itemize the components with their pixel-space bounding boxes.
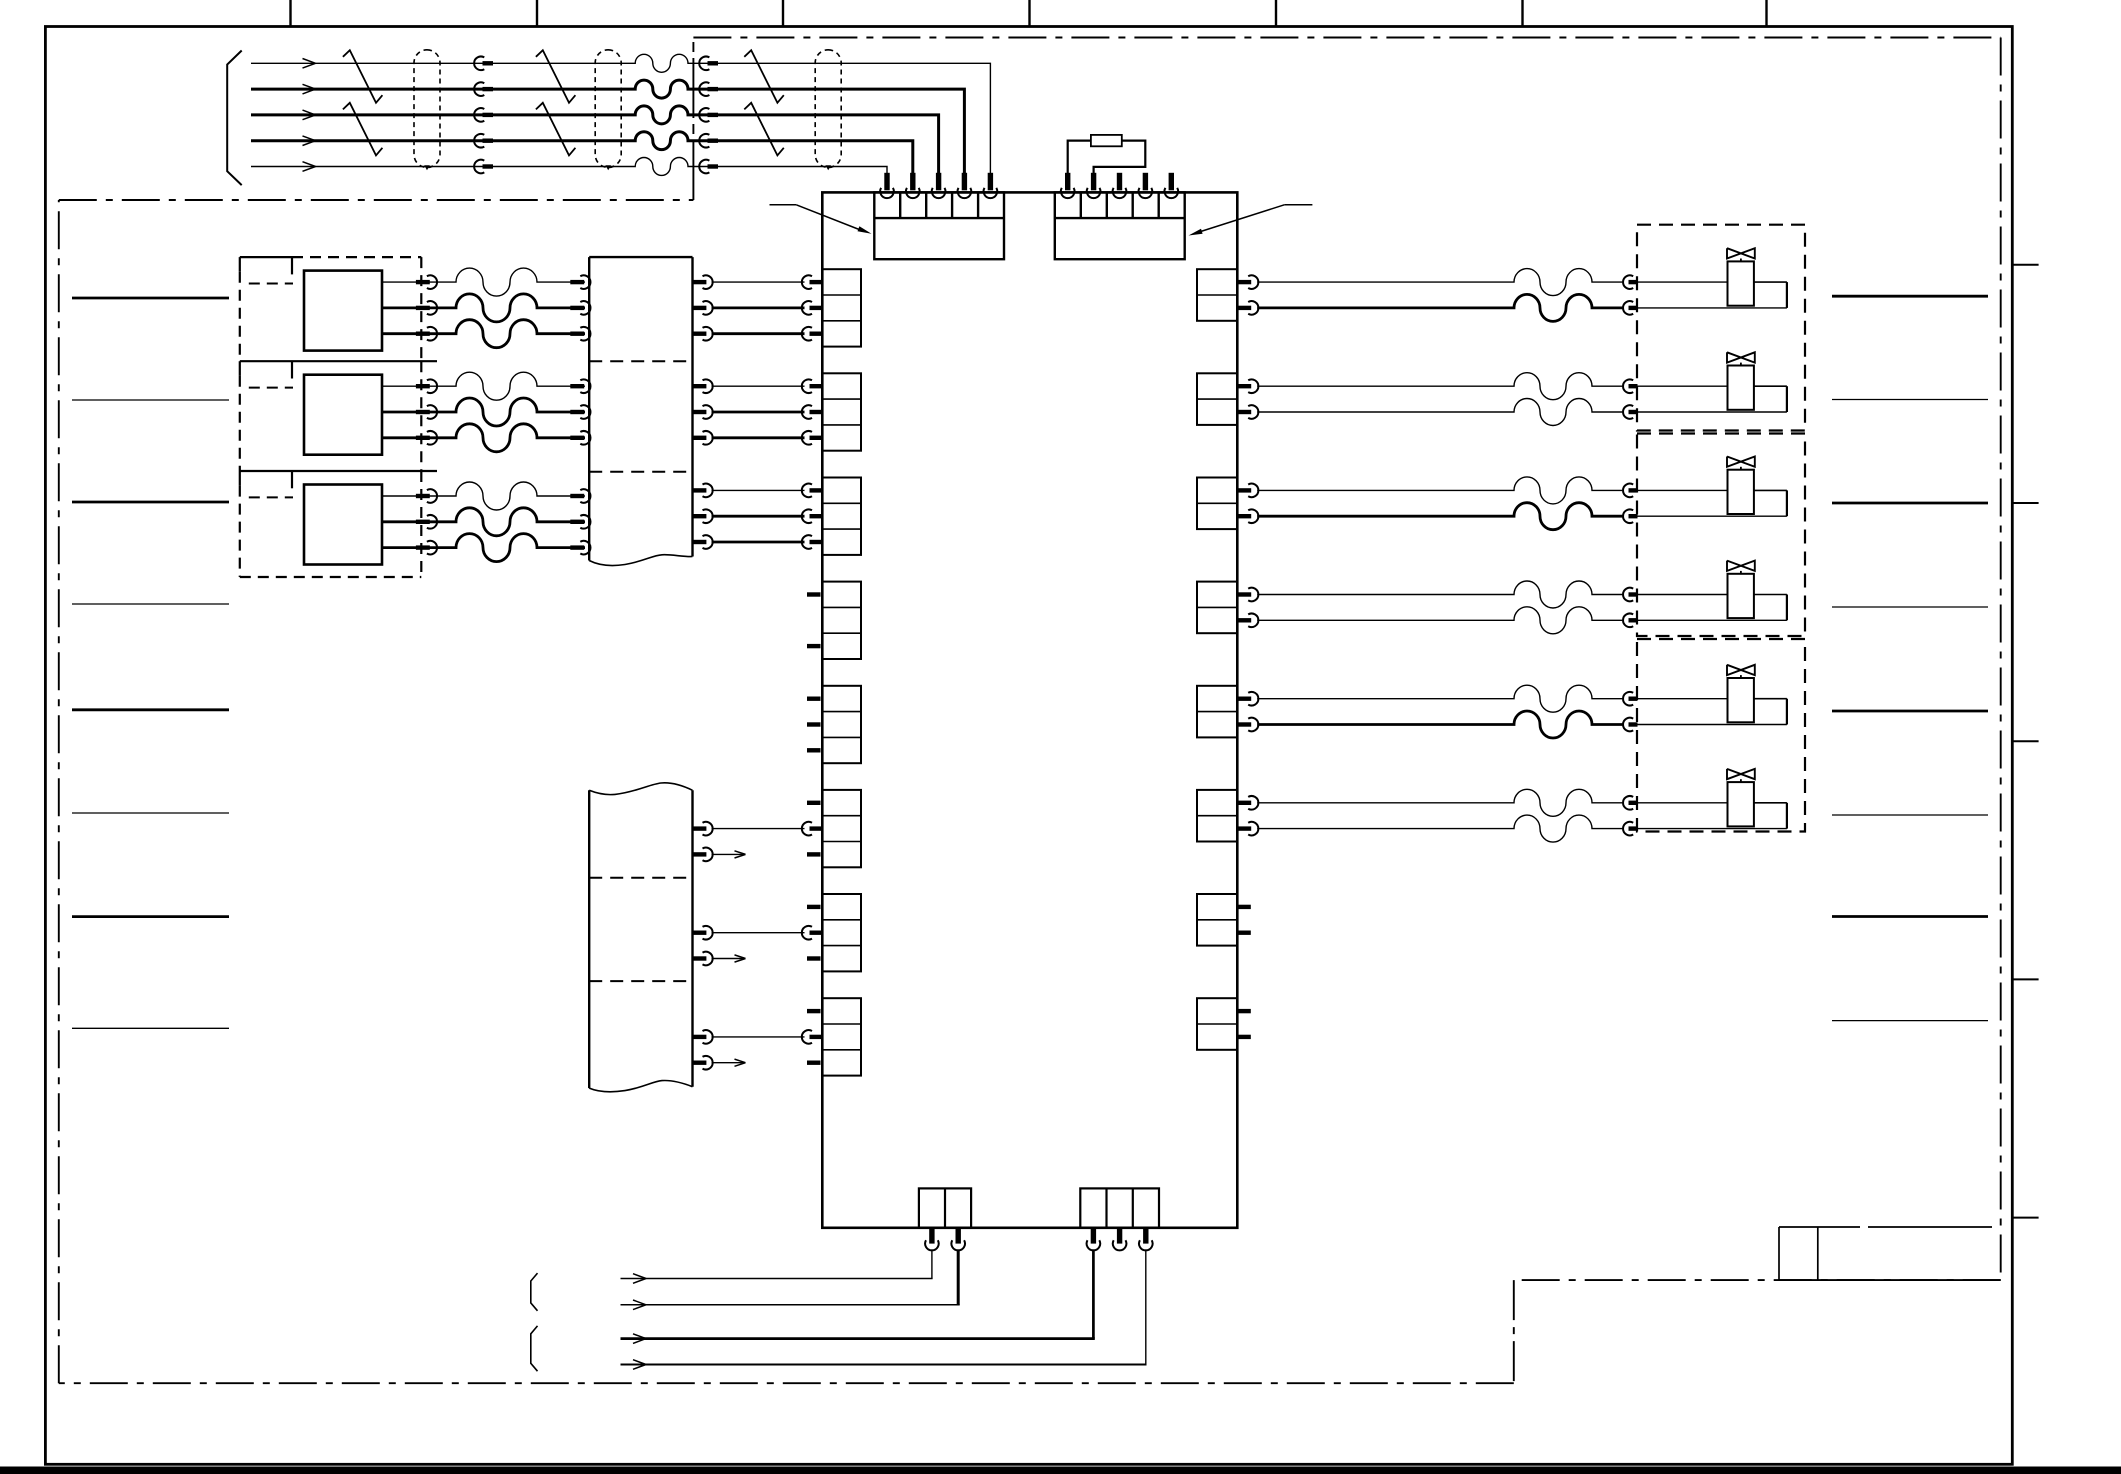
controller right terminal block U7	[1197, 894, 1237, 946]
T5 spare terminals	[807, 697, 821, 753]
U6 wire plugs	[1237, 796, 1258, 835]
wire K2 to T6.2	[693, 822, 805, 836]
controller left terminal block T7	[822, 894, 861, 971]
right cable label line 4	[1832, 606, 1988, 608]
solenoid valve Y1	[1727, 248, 1755, 305]
valve Y2 circuit wires	[1257, 373, 1787, 426]
wire K1 to T1.1	[693, 275, 805, 289]
connector X4 pins	[1087, 1228, 1153, 1251]
controller right terminal block U6	[1197, 790, 1237, 842]
U7 spare terminals	[1237, 905, 1251, 935]
solenoid valve Y2	[1727, 352, 1755, 410]
harness wire 5	[251, 158, 887, 176]
K2 spare lead 3	[693, 1056, 746, 1070]
harness wire 3	[251, 106, 939, 174]
T6 terminals	[802, 801, 822, 857]
wire K1 to T2.1	[693, 379, 805, 393]
sensor B2 wire 2	[382, 398, 590, 426]
valve group enclosure 3	[1637, 639, 1805, 832]
harness shield oval 2	[595, 50, 621, 170]
U2 wire plugs	[1237, 379, 1258, 418]
right cable label line 2	[1832, 399, 1988, 401]
valve Y5 connectors	[1623, 692, 1637, 731]
right cable label line 7	[1832, 915, 1988, 918]
sensor B3 wire 2	[382, 508, 590, 536]
valve Y5 circuit wires	[1257, 685, 1787, 738]
controller left terminal block T5	[822, 686, 861, 763]
supply wire 1	[621, 1249, 933, 1283]
field sensor group B1 enclosure	[240, 257, 421, 361]
controller bottom connector X4	[1080, 1188, 1159, 1227]
left cable label line 6	[72, 812, 229, 814]
controller left terminal block T1	[822, 269, 861, 346]
field sensor group B3 enclosure	[240, 471, 437, 577]
harness conductor group marks 2	[536, 50, 576, 155]
controller top connector X1	[874, 192, 1004, 259]
controller left terminal block T4	[822, 582, 861, 659]
connector X2 pins	[1061, 173, 1178, 198]
sensor B3 body	[304, 485, 382, 565]
controller right terminal block U8	[1197, 998, 1237, 1050]
harness wire 1	[251, 54, 990, 173]
sensor B3 wire 3	[382, 534, 590, 562]
harness conductor group marks 1	[343, 50, 383, 155]
solenoid valve Y6	[1727, 769, 1755, 826]
right frame tick marks	[2012, 265, 2038, 1218]
wire K1 to T3.3	[693, 535, 805, 549]
wire K1 to T1.3	[693, 327, 805, 341]
U4 wire plugs	[1237, 588, 1258, 627]
valve Y4 connectors	[1623, 588, 1637, 627]
wire K1 to T2.3	[693, 431, 805, 445]
T1 wire sockets	[802, 275, 822, 340]
top frame tick marks	[291, 0, 1767, 27]
controller right terminal block U3	[1197, 478, 1237, 530]
valve group enclosure 2	[1637, 434, 1805, 637]
solenoid valve Y5	[1727, 665, 1755, 723]
controller right terminal block U4	[1197, 582, 1237, 634]
harness cable brace	[227, 51, 242, 186]
sensor B1 wire 2	[382, 294, 590, 322]
valve Y1 circuit wires	[1257, 269, 1787, 322]
sensor B1 wire 3	[382, 320, 590, 348]
controller unit A1 outline	[822, 192, 1237, 1227]
supply cable brace 2	[531, 1326, 538, 1371]
right cable label line 1	[1832, 295, 1988, 298]
valve Y2 connectors	[1623, 379, 1637, 418]
harness connector set 1	[474, 56, 493, 173]
right cable label line 3	[1832, 502, 1988, 505]
controller right terminal block U2	[1197, 373, 1237, 425]
wire K1 to T3.1	[693, 484, 805, 498]
left cable label line 8	[72, 1027, 229, 1029]
supply wire 4	[621, 1249, 1147, 1369]
valve Y6 circuit wires	[1257, 789, 1787, 842]
harness shield oval 3	[815, 50, 841, 170]
sensor B1 wire 1	[382, 268, 590, 296]
solenoid valve Y4	[1727, 561, 1755, 619]
controller left terminal block T8	[822, 998, 861, 1075]
leader arrow to connector X2	[1189, 205, 1313, 236]
sensor B2 body	[304, 375, 382, 455]
left cable label line 1	[72, 297, 229, 300]
right cable label line 8	[1832, 1020, 1988, 1022]
leader arrow to connector X1	[770, 205, 872, 234]
connector X1 pins	[880, 173, 997, 198]
harness shield oval 1	[414, 50, 440, 170]
terminal strip K2 outline	[589, 783, 692, 1092]
sensor B2 wire 3	[382, 424, 590, 452]
solenoid valve Y3	[1727, 457, 1755, 515]
harness wire arrowheads	[303, 59, 316, 172]
controller right terminal block U5	[1197, 686, 1237, 738]
valve Y1 connectors	[1623, 275, 1637, 314]
U3 wire plugs	[1237, 484, 1258, 523]
right cable label line 5	[1832, 710, 1988, 713]
sensor B3 wire 1	[382, 482, 590, 510]
field sensor group B2 enclosure	[240, 361, 437, 471]
left cable label line 7	[72, 915, 229, 918]
controller left terminal block T2	[822, 373, 861, 450]
valve Y4 circuit wires	[1257, 581, 1787, 634]
bottom scan band	[0, 1467, 2121, 1474]
controller bottom connector X3	[919, 1188, 971, 1227]
wire K2 to T7.2	[693, 926, 805, 940]
U5 wire plugs	[1237, 692, 1258, 731]
K2 spare lead 2	[693, 952, 746, 966]
harness connector set 2	[699, 56, 718, 173]
supply cable brace 1	[531, 1273, 538, 1311]
revision box	[1779, 1227, 2001, 1280]
harness conductor group marks 3	[744, 50, 784, 155]
U8 spare terminals	[1237, 1009, 1251, 1039]
T3 wire sockets	[802, 484, 822, 549]
sensor B2 wire 1	[382, 372, 590, 400]
wire K1 to T2.2	[693, 405, 805, 419]
left cable label line 4	[72, 603, 229, 605]
supply wire 2	[621, 1249, 960, 1309]
valve Y3 circuit wires	[1257, 477, 1787, 530]
jumper resistor across X2 pins 1-2	[1068, 135, 1146, 174]
controller left terminal block T3	[822, 478, 861, 555]
valve Y3 connectors	[1623, 484, 1637, 523]
left cable label line 3	[72, 501, 229, 504]
connector X3 pins	[925, 1228, 965, 1251]
wire K1 to T3.2	[693, 509, 805, 523]
wire K2 to T8.2	[693, 1030, 805, 1044]
T4 spare terminals	[807, 592, 821, 648]
U1 wire plugs	[1237, 275, 1258, 314]
supply wire 3	[621, 1249, 1095, 1343]
harness wire 2	[251, 80, 964, 173]
controller right terminal block U1	[1197, 269, 1237, 321]
T7 terminals	[802, 905, 822, 961]
sensor B1 body	[304, 271, 382, 351]
harness wire 4	[251, 132, 913, 174]
left cable label line 5	[72, 708, 229, 711]
T2 wire sockets	[802, 379, 822, 444]
controller top connector X2	[1055, 192, 1185, 259]
left cable label line 2	[72, 399, 229, 401]
T8 terminals	[802, 1009, 822, 1065]
valve Y6 connectors	[1623, 796, 1637, 835]
K2 spare lead 1	[693, 848, 746, 862]
wire K1 to T1.2	[693, 301, 805, 315]
right cable label line 6	[1832, 814, 1988, 816]
controller left terminal block T6	[822, 790, 861, 867]
terminal strip K1 outline	[589, 257, 692, 565]
valve group enclosure 1	[1637, 225, 1805, 431]
